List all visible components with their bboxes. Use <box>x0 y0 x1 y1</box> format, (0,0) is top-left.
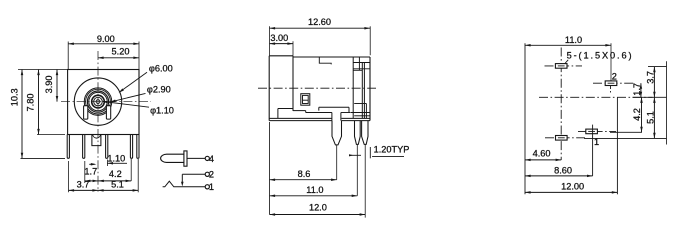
svg-text:1: 1 <box>209 182 214 192</box>
svg-text:2: 2 <box>612 72 617 82</box>
svg-text:3.90: 3.90 <box>44 75 54 93</box>
svg-text:7.80: 7.80 <box>25 94 35 112</box>
svg-text:1.20TYP: 1.20TYP <box>374 145 410 155</box>
svg-text:11.0: 11.0 <box>565 35 582 45</box>
svg-text:1.7: 1.7 <box>632 83 642 96</box>
svg-text:1.7: 1.7 <box>84 167 97 177</box>
svg-text:10.3: 10.3 <box>9 88 19 106</box>
svg-text:φ6.00: φ6.00 <box>149 64 173 74</box>
svg-text:2: 2 <box>209 170 214 180</box>
svg-text:3.7: 3.7 <box>645 71 655 84</box>
svg-text:φ2.90: φ2.90 <box>147 85 171 95</box>
svg-text:12.60: 12.60 <box>308 17 331 27</box>
svg-text:5-(1.5X0.6): 5-(1.5X0.6) <box>567 51 634 61</box>
svg-text:1.10: 1.10 <box>107 153 125 163</box>
svg-text:12.00: 12.00 <box>561 182 584 192</box>
svg-text:5.1: 5.1 <box>111 179 124 189</box>
svg-text:11.0: 11.0 <box>306 185 323 195</box>
svg-text:5.20: 5.20 <box>112 47 130 57</box>
svg-text:4.60: 4.60 <box>533 149 551 159</box>
svg-text:φ1.10: φ1.10 <box>150 105 174 115</box>
svg-text:3.7: 3.7 <box>77 179 90 189</box>
svg-text:5.1: 5.1 <box>645 111 655 124</box>
svg-text:4.2: 4.2 <box>109 169 122 179</box>
svg-text:8.6: 8.6 <box>298 169 311 179</box>
svg-text:4.2: 4.2 <box>632 108 642 121</box>
svg-text:4: 4 <box>209 154 214 164</box>
svg-text:8.60: 8.60 <box>554 165 572 175</box>
svg-text:3.00: 3.00 <box>270 33 288 43</box>
svg-text:12.0: 12.0 <box>309 203 327 213</box>
svg-text:9.00: 9.00 <box>97 34 115 44</box>
